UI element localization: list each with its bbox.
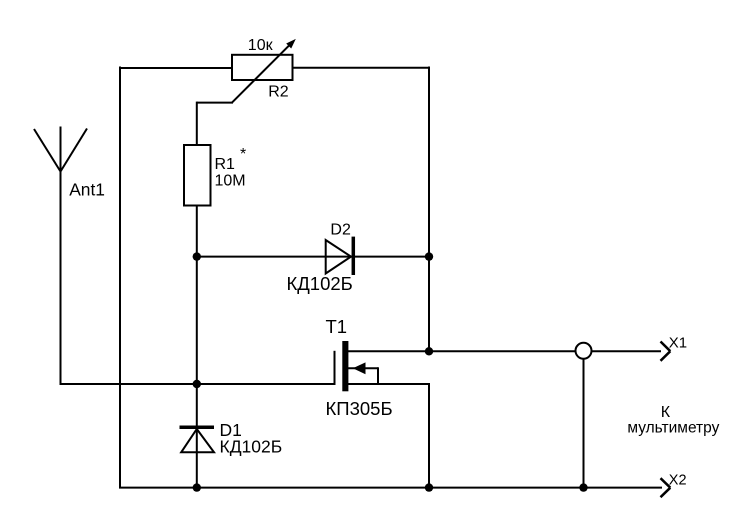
svg-text:Ant1: Ant1 xyxy=(69,180,105,200)
wire drain to X1 xyxy=(348,350,661,352)
svg-text:X1: X1 xyxy=(669,334,687,351)
svg-text:КД102Б: КД102Б xyxy=(287,273,353,294)
wire gate line from antenna to T1 gate xyxy=(60,383,336,385)
node X1 terminal bottom junction xyxy=(579,483,587,491)
label К мультиметру xyxy=(627,404,719,436)
node D1 bottom junction xyxy=(193,483,201,491)
node gate-D1 junction xyxy=(193,380,201,388)
svg-text:10к: 10к xyxy=(248,37,274,54)
node R1-D2 junction xyxy=(193,252,201,260)
wire X1 terminal down to bottom rail xyxy=(583,359,585,488)
transistor T1 gate lead xyxy=(334,351,336,385)
svg-text:10М: 10М xyxy=(215,173,246,190)
node D2-right rail junction xyxy=(425,252,433,260)
svg-text:мультиметру: мультиметру xyxy=(627,419,719,436)
node drain junction xyxy=(425,347,433,355)
svg-text:X2: X2 xyxy=(669,473,687,489)
potentiometer R2 wiper arrow xyxy=(232,39,296,103)
wire R2 right to right rail xyxy=(292,67,431,69)
wire top rail to R2 xyxy=(119,67,233,69)
diode D2 xyxy=(326,237,354,275)
svg-text:T1: T1 xyxy=(326,316,348,337)
antenna Ant1 xyxy=(34,127,87,385)
wire left rail vertical xyxy=(119,67,121,489)
diode D1 xyxy=(180,427,215,452)
svg-text:КД102Б: КД102Б xyxy=(220,437,283,457)
terminal circle X1 xyxy=(576,343,592,359)
wire bottom rail xyxy=(119,487,662,489)
svg-text:D2: D2 xyxy=(330,221,351,238)
wire R1 bottom down to D1 xyxy=(196,206,198,489)
wire source to bottom rail xyxy=(348,383,430,489)
resistor R1 body xyxy=(184,145,211,206)
wire D2 horizontal xyxy=(196,256,430,258)
svg-text:КП305Б: КП305Б xyxy=(326,398,393,419)
svg-text:R1: R1 xyxy=(215,156,236,173)
node source bottom junction xyxy=(425,483,433,491)
arrow X1 xyxy=(661,342,671,361)
arrow X2 xyxy=(661,478,671,497)
potentiometer R2 body xyxy=(232,55,293,80)
wire R2 wiper to R1 xyxy=(197,102,233,146)
transistor T1 substrate arrow xyxy=(348,362,378,384)
transistor T1 channel bar xyxy=(342,341,348,391)
svg-text:R2: R2 xyxy=(268,84,289,101)
wire right rail vertical down to drain node xyxy=(428,67,430,353)
svg-text:*: * xyxy=(240,146,246,163)
